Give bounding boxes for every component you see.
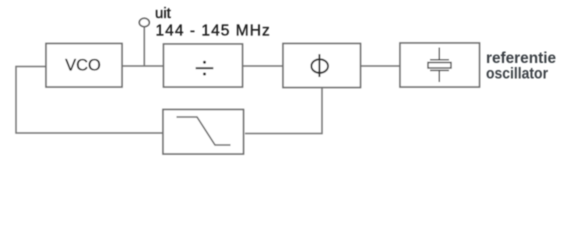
wire feedback left vertical (16, 67, 163, 134)
phase detector symbol (311, 54, 328, 77)
svg-text:referentie: referentie (486, 50, 556, 67)
svg-text:oscillator: oscillator (486, 66, 548, 83)
svg-text:VCO: VCO (65, 57, 101, 75)
divider box (164, 44, 243, 87)
wire phase detector to reference oscillator (361, 65, 401, 67)
wire uit branch vertical (143, 27, 145, 66)
svg-text:144 - 145 MHz: 144 - 145 MHz (156, 23, 271, 40)
node uit terminal circle (139, 18, 149, 26)
wire phase detector bottom to filter (245, 88, 322, 134)
filter low-pass curve (177, 117, 231, 145)
reference oscillator box (400, 43, 480, 87)
phase detector box (283, 44, 361, 88)
wire VCO output to divider (122, 65, 164, 67)
crystal (428, 48, 451, 83)
filter box (163, 110, 244, 155)
divider symbol (196, 61, 214, 76)
wire divider to phase detector (243, 65, 284, 67)
VCO box (46, 44, 122, 88)
svg-text:uit: uit (155, 5, 172, 22)
